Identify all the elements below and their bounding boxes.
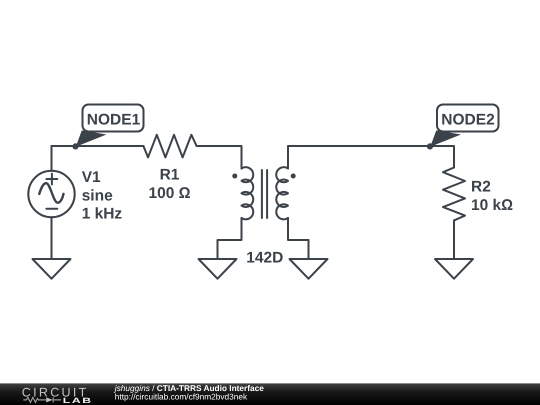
svg-text:NODE2: NODE2 xyxy=(441,112,494,129)
svg-text:1 kHz: 1 kHz xyxy=(82,205,123,222)
svg-text:100 Ω: 100 Ω xyxy=(148,185,190,202)
svg-text:http://circuitlab.com/cf9nm2bv: http://circuitlab.com/cf9nm2bvd3nek xyxy=(115,392,248,402)
svg-text:sine: sine xyxy=(82,187,113,204)
svg-text:R2: R2 xyxy=(471,179,491,196)
svg-text:LAB: LAB xyxy=(63,396,93,405)
svg-text:NODE1: NODE1 xyxy=(87,112,141,129)
svg-text:R1: R1 xyxy=(160,166,180,183)
svg-text:142D: 142D xyxy=(246,250,283,267)
svg-text:V1: V1 xyxy=(82,169,101,186)
svg-text:10 kΩ: 10 kΩ xyxy=(471,197,513,214)
